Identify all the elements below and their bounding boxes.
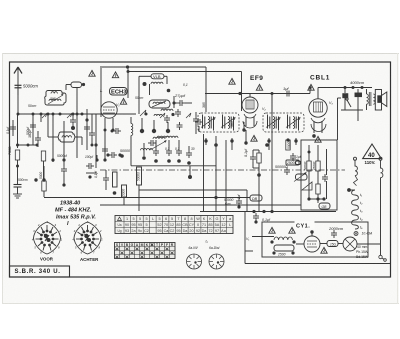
svg-text:Ph.15W: Ph.15W	[356, 250, 369, 254]
svg-text:30: 30	[191, 147, 195, 151]
svg-text:2500: 2500	[277, 253, 286, 257]
svg-text:6a-Dist: 6a-Dist	[209, 246, 221, 250]
svg-text:395: 395	[50, 97, 56, 101]
svg-text:MF - 484 KHZ.: MF - 484 KHZ.	[55, 208, 92, 214]
svg-text:VOOR: VOOR	[40, 257, 54, 262]
svg-text:CY1.: CY1.	[296, 224, 310, 230]
svg-text:CBL1: CBL1	[310, 75, 330, 82]
svg-text:1938-40: 1938-40	[60, 201, 80, 207]
svg-text:Ωm: Ωm	[225, 202, 231, 206]
svg-text:5000cm: 5000cm	[23, 84, 38, 89]
svg-text:GB: GB	[322, 205, 328, 209]
svg-text:50000Ω: 50000Ω	[275, 165, 288, 169]
svg-text:50000: 50000	[120, 149, 130, 153]
svg-text:6a-NV: 6a-NV	[189, 246, 199, 250]
svg-text:5000: 5000	[122, 189, 126, 196]
svg-text:50cm: 50cm	[135, 96, 143, 100]
svg-text:385: 385	[202, 102, 206, 108]
svg-text:110V.: 110V.	[365, 160, 376, 165]
svg-text:50000: 50000	[287, 140, 291, 149]
svg-text:100μf: 100μf	[85, 155, 94, 159]
svg-text:2000cm: 2000cm	[328, 226, 344, 231]
svg-text:ACHTER: ACHTER	[80, 257, 99, 262]
svg-text:V₂: V₂	[262, 107, 266, 111]
svg-text:Bd.15W: Bd.15W	[356, 255, 369, 259]
svg-text:2: 2	[99, 229, 102, 233]
svg-text:0,1μf: 0,1μf	[262, 218, 271, 222]
svg-text:40 mm: 40 mm	[357, 245, 368, 249]
svg-text:25000: 25000	[286, 161, 296, 165]
svg-text:0,1: 0,1	[175, 147, 180, 151]
svg-text:0,1: 0,1	[183, 83, 188, 87]
svg-text:2: 2	[77, 223, 80, 227]
svg-text:40: 40	[368, 153, 375, 159]
svg-text:500μf: 500μf	[26, 126, 30, 135]
svg-text:0,1μf: 0,1μf	[244, 148, 248, 157]
svg-text:27μμf: 27μμf	[174, 93, 186, 98]
svg-text:50000: 50000	[137, 172, 141, 181]
svg-text:0,1μf: 0,1μf	[94, 170, 98, 178]
svg-text:15Ω: 15Ω	[330, 243, 337, 247]
svg-text:4000cm: 4000cm	[350, 80, 365, 85]
svg-text:DB: DB	[252, 197, 258, 201]
svg-text:25000: 25000	[312, 161, 316, 171]
svg-text:V₁: V₁	[246, 237, 249, 241]
svg-text:0,1: 0,1	[165, 147, 170, 151]
svg-text:5000μf: 5000μf	[57, 154, 68, 158]
svg-text:2: 2	[58, 229, 61, 233]
svg-text:385: 385	[230, 121, 234, 127]
svg-text:0,1μf: 0,1μf	[6, 126, 10, 134]
svg-text:S.B.R. 340 U.: S.B.R. 340 U.	[15, 269, 61, 275]
svg-text:500cm: 500cm	[18, 178, 28, 182]
svg-text:700Ω: 700Ω	[8, 146, 12, 155]
svg-text:Imax 535 R.p.V.: Imax 535 R.p.V.	[56, 215, 96, 221]
svg-text:ECH3: ECH3	[111, 90, 127, 96]
svg-text:2: 2	[37, 223, 40, 227]
svg-text:50cm: 50cm	[28, 104, 36, 108]
svg-text:EF9: EF9	[250, 75, 263, 82]
svg-text:10.43A: 10.43A	[362, 232, 373, 236]
svg-text:V₃: V₃	[329, 101, 333, 105]
svg-text:VLB: VLB	[153, 74, 161, 79]
svg-text:5000: 5000	[39, 172, 43, 179]
svg-text:50000: 50000	[303, 161, 307, 170]
svg-text:1μf: 1μf	[283, 86, 289, 91]
